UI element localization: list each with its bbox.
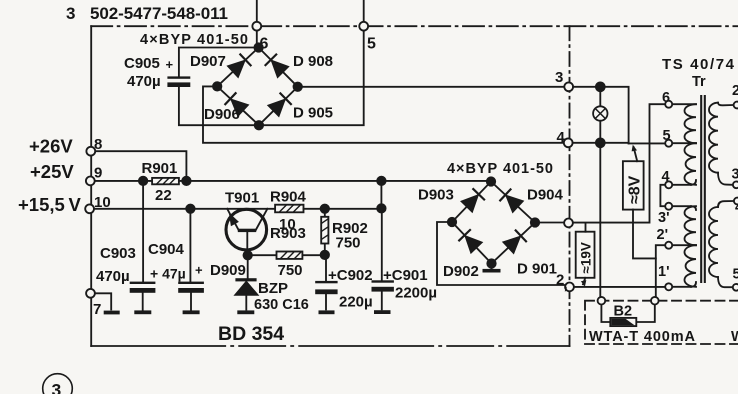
wire terminal 8 to R901 output corner xyxy=(95,151,186,176)
wire C903 branch drop xyxy=(142,181,144,281)
terminal 6 circle xyxy=(252,22,261,31)
wire bridge2 diamond arms xyxy=(452,182,535,264)
terminal (bridge2 ac) circle xyxy=(564,219,573,228)
svg-text:4×BYP 401-50: 4×BYP 401-50 xyxy=(140,32,248,48)
svg-text:D902: D902 xyxy=(443,263,479,280)
svg-text:WTA-T 400mA: WTA-T 400mA xyxy=(589,329,696,345)
wire lamp junction down to fuse B2 left terminal xyxy=(599,143,601,297)
terminal 9 circle xyxy=(86,177,95,186)
diode D908 xyxy=(272,61,288,77)
ground for bridge2 bottom node xyxy=(491,264,493,269)
svg-text:+15,5 V: +15,5 V xyxy=(18,194,82,215)
resistor R903 xyxy=(248,225,325,279)
svg-text:B2: B2 xyxy=(614,304,633,320)
wire link up to +25/26 rail xyxy=(380,181,382,209)
fuse B2 body xyxy=(610,318,636,326)
wire terminal 4 line to transformer tap 5 xyxy=(573,142,666,145)
node bridge1 left xyxy=(213,82,221,90)
svg-text:+26V: +26V xyxy=(29,136,73,157)
board border left xyxy=(90,26,92,346)
secondary bottom tap circle xyxy=(733,284,738,291)
diode D906 xyxy=(232,100,248,116)
ground for C901 xyxy=(374,310,391,314)
svg-text:4: 4 xyxy=(557,129,566,146)
wire tap 2' to fuse B2 right terminal xyxy=(656,245,665,297)
svg-text:630 C16: 630 C16 xyxy=(254,297,309,313)
node bridge1 bottom xyxy=(255,121,263,129)
collector diagonal xyxy=(256,209,268,230)
node junction R904/R902 xyxy=(321,205,329,213)
resistor R902 (vertical) xyxy=(321,209,368,255)
svg-text:D 905: D 905 xyxy=(293,105,333,122)
emitter diagonal with arrow xyxy=(227,209,238,230)
svg-text:BD 354: BD 354 xyxy=(218,323,284,345)
wire bridge1 right node to terminal 3 xyxy=(298,86,565,88)
svg-text:2200µ: 2200µ xyxy=(395,285,437,302)
svg-text:D909: D909 xyxy=(210,262,246,279)
svg-text:2': 2' xyxy=(657,227,669,243)
svg-text:4×BYP 401-50: 4×BYP 401-50 xyxy=(447,161,553,177)
transformer secondary winding coils xyxy=(709,103,718,173)
terminal 2 circle xyxy=(565,283,574,292)
svg-text:D907: D907 xyxy=(190,53,226,70)
tap 3' circle xyxy=(665,203,672,210)
wire R904 right to junction and on to C901 drop xyxy=(304,208,382,210)
node bridge1 top xyxy=(254,43,262,51)
ground for C904 xyxy=(183,310,200,314)
diode D905 xyxy=(269,100,285,116)
dashed enclosure around fuse B2 xyxy=(585,301,738,344)
secondary tap circle (mid) xyxy=(733,181,738,188)
terminal 4 circle xyxy=(564,138,573,147)
wire terminal 7 to ground xyxy=(95,293,111,309)
wire tap6 down and to bridge2 ac terminal xyxy=(573,104,665,222)
sheet number circled 3 xyxy=(43,374,73,394)
svg-text:R901: R901 xyxy=(142,160,178,177)
svg-text:3: 3 xyxy=(732,167,738,183)
svg-text:R904: R904 xyxy=(270,189,307,206)
svg-text:220µ: 220µ xyxy=(339,294,373,311)
svg-text:BZP: BZP xyxy=(258,280,288,297)
svg-text:+ 47µ: + 47µ xyxy=(150,266,186,282)
svg-text:7: 7 xyxy=(93,301,101,318)
node bridge2 left xyxy=(448,218,456,226)
svg-text:D 901: D 901 xyxy=(517,261,557,278)
ground for C902 xyxy=(319,310,335,314)
capacitor C904 xyxy=(148,241,204,310)
diode D901 xyxy=(504,237,520,253)
secondary tap circle (sect B top) xyxy=(734,198,738,205)
node junction rail/C901 xyxy=(377,204,385,212)
wire terminal 6 to bridge1 top node xyxy=(256,31,258,48)
transformer left winding coils xyxy=(685,104,697,143)
svg-text:+: + xyxy=(195,263,203,278)
resistor R901 xyxy=(142,160,179,204)
wire C905 bottom to bottom rail to terminal 5 xyxy=(179,31,364,126)
tap 6 circle xyxy=(665,101,672,108)
svg-text:D 908: D 908 xyxy=(293,53,333,70)
svg-text:470µ: 470µ xyxy=(127,73,161,90)
svg-text:750: 750 xyxy=(336,235,361,252)
terminal 8 circle xyxy=(86,147,95,156)
wire jumper tap4 to tap3' xyxy=(660,185,665,206)
node junction +26V/+25V xyxy=(182,177,190,185)
title text 502-5477-548-011 xyxy=(66,4,228,23)
wire bridge1 diamond arms xyxy=(217,48,298,126)
diode D903 xyxy=(462,195,478,211)
wire bridge2 right node to unlabeled border terminal xyxy=(535,222,564,224)
tap 5 circle xyxy=(665,140,672,147)
node bridge2 bottom xyxy=(487,259,495,267)
wire C904 branch drop xyxy=(189,209,191,281)
wire tap stubs to winding xyxy=(672,104,696,287)
ground for terminal 7 xyxy=(104,311,120,315)
winding ends curve for 4 and 3' and 1' xyxy=(691,180,696,287)
svg-text:+25V: +25V xyxy=(30,161,74,182)
svg-text:3: 3 xyxy=(555,69,563,86)
wire bridge1 left node down and to terminal 4 xyxy=(203,86,564,142)
svg-text:≈8V: ≈8V xyxy=(627,175,644,204)
node junction R903/R902/C902 xyxy=(321,251,329,259)
tap 4 circle xyxy=(665,181,672,188)
wire R901 to +25/26 rail junction and on to bridge2 top xyxy=(179,180,491,182)
svg-text:502-5477-548-011: 502-5477-548-011 xyxy=(90,4,228,23)
diode D907 xyxy=(228,61,244,77)
svg-text:C903: C903 xyxy=(100,245,136,262)
wire bridge2 left node to terminal 2 xyxy=(437,222,565,285)
wire bridge1 top node to C905 top xyxy=(179,48,259,76)
svg-text:D904: D904 xyxy=(527,187,564,204)
svg-text:D906: D906 xyxy=(204,106,240,123)
wire terminal 2 to transformer tap 1' xyxy=(574,286,665,288)
node junction C904 tap xyxy=(186,205,194,213)
terminal 7 circle xyxy=(86,289,95,298)
wire terminal 3 to corner and down to tap5 line xyxy=(573,87,629,144)
svg-text:750: 750 xyxy=(278,262,303,279)
svg-text:22: 22 xyxy=(155,187,172,204)
svg-text:+: + xyxy=(166,57,174,72)
base bar xyxy=(238,229,256,232)
svg-text:WT: WT xyxy=(731,329,738,345)
board border right (dash-dot) xyxy=(569,26,571,346)
svg-text:2: 2 xyxy=(732,83,738,99)
svg-text:5: 5 xyxy=(367,36,376,53)
transformer core xyxy=(701,96,705,282)
board border bottom (long dash-dot) xyxy=(91,345,569,347)
svg-text:TS 40/74: TS 40/74 xyxy=(662,56,735,73)
tap 2' circle xyxy=(665,242,672,249)
terminal fuse left circle xyxy=(598,297,606,305)
node lamp top junction xyxy=(596,82,605,91)
svg-text:,: , xyxy=(564,276,568,293)
terminal 10 circle xyxy=(85,204,94,213)
svg-text:≈19V: ≈19V xyxy=(579,242,594,273)
node bridge1 right xyxy=(294,83,302,91)
svg-text:3: 3 xyxy=(52,380,62,394)
voltmeter box ~8V xyxy=(623,145,644,210)
transistor T901 xyxy=(225,190,267,256)
capacitor C902 xyxy=(315,255,372,311)
svg-text:Tr: Tr xyxy=(692,74,706,90)
svg-text:5: 5 xyxy=(733,267,738,283)
wire secondary stubs xyxy=(718,103,734,288)
tap 1' circle xyxy=(665,283,672,290)
secondary tap circle (top) xyxy=(734,102,738,109)
svg-text:3: 3 xyxy=(66,4,75,23)
node junction C903 tap xyxy=(139,177,147,185)
capacitor C905 xyxy=(167,76,190,78)
fuse B2 wiring xyxy=(601,305,654,323)
zener diode D909 xyxy=(210,255,309,313)
board border top (dash-dot) xyxy=(91,25,738,27)
wire terminal 10 rail +15,5V to R904 xyxy=(94,208,275,210)
wire terminal 6 stub above border xyxy=(256,0,258,22)
node bridge2 right xyxy=(531,218,539,226)
node junction base/R903/D909 xyxy=(244,251,252,259)
capacitor C901 xyxy=(372,208,438,309)
svg-text:C904: C904 xyxy=(148,241,185,258)
base lead down xyxy=(246,232,248,255)
lamp (circle with X) xyxy=(599,87,601,143)
svg-text:1': 1' xyxy=(658,264,670,280)
ground for D909 xyxy=(237,310,254,314)
diode D904 xyxy=(507,196,523,212)
wire terminal 9 to R901 xyxy=(95,180,153,182)
svg-text:T901: T901 xyxy=(225,190,259,207)
voltmeter box ~19V xyxy=(576,223,595,287)
svg-text:C905: C905 xyxy=(124,55,160,72)
terminal 5 circle xyxy=(359,22,368,31)
capacitor C903 xyxy=(96,245,155,310)
node junction on rail xyxy=(377,177,385,185)
resistor R904 xyxy=(270,189,307,234)
diode D902 xyxy=(466,236,482,252)
svg-text:470µ: 470µ xyxy=(96,268,130,285)
svg-text:D903: D903 xyxy=(418,187,454,204)
svg-text:R903: R903 xyxy=(270,225,306,242)
wire ~8V bottom to tap2' line xyxy=(633,210,656,259)
terminal fuse right circle xyxy=(651,297,659,305)
node lamp bottom junction xyxy=(596,138,605,147)
svg-text:3': 3' xyxy=(658,210,670,226)
wire terminal 5 stub above border xyxy=(363,0,365,22)
terminal 3 circle xyxy=(564,82,573,91)
ground for C903 xyxy=(134,310,151,314)
node bridge2 top xyxy=(487,177,495,185)
